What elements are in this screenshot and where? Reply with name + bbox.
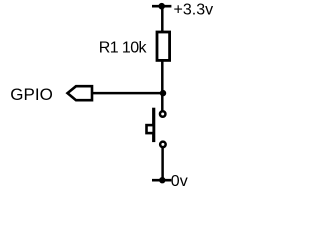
- svg-text:0v: 0v: [171, 173, 188, 189]
- power rail +3.3v: [152, 3, 171, 10]
- pushbutton S1 terminal top: [160, 111, 166, 117]
- wire power to resistor: [161, 6, 164, 32]
- wire GPIO flag to node: [92, 92, 163, 95]
- svg-text:GPIO: GPIO: [10, 85, 53, 104]
- pushbutton S1 actuator bar: [152, 108, 155, 142]
- wire switch to 0v rail: [161, 148, 164, 180]
- GPIO net flag: [68, 86, 93, 100]
- resistor R1: [157, 32, 170, 60]
- pushbutton S1 terminal bottom: [160, 142, 166, 148]
- node junction: [160, 90, 166, 96]
- svg-text:R1 10k: R1 10k: [99, 40, 148, 57]
- pushbutton S1 button cap: [147, 125, 154, 133]
- svg-text:+3.3v: +3.3v: [174, 2, 214, 19]
- wire resistor to node: [161, 60, 164, 110]
- 0v rail: [152, 177, 171, 183]
